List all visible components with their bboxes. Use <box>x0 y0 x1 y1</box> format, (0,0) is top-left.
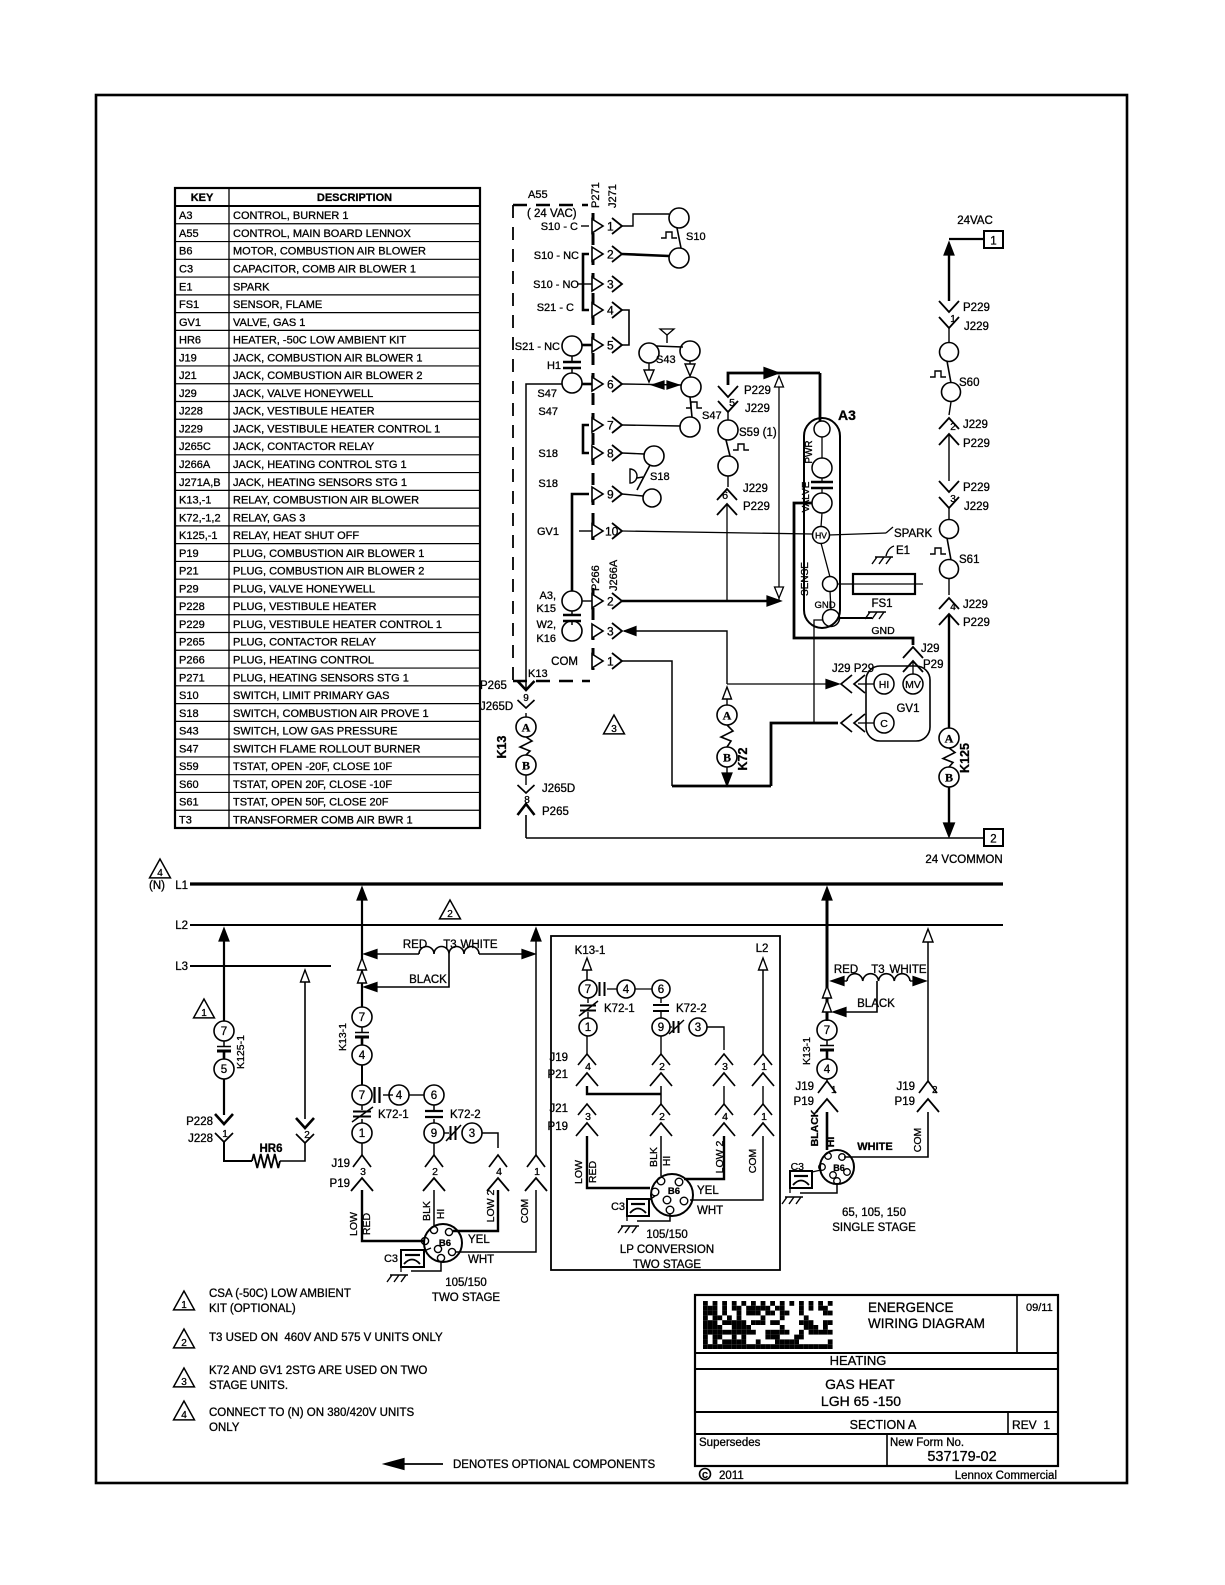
svg-text:K13: K13 <box>528 668 548 680</box>
svg-text:K72 AND GV1 2STG ARE USED ON T: K72 AND GV1 2STG ARE USED ON TWO <box>209 1365 427 1377</box>
wire jumper pin9 down to K15 <box>572 494 589 591</box>
switch S18 <box>644 446 664 466</box>
svg-text:( 24 VAC): ( 24 VAC) <box>527 208 577 220</box>
svg-text:GV1: GV1 <box>179 317 201 329</box>
svg-text:P229: P229 <box>963 302 990 314</box>
wire S47 to pin6 <box>582 383 592 386</box>
svg-text:P19: P19 <box>330 1178 350 1190</box>
svg-text:2: 2 <box>659 1111 665 1123</box>
wire T3 black tap (right) <box>846 981 877 1012</box>
svg-text:BLK: BLK <box>421 1201 433 1221</box>
svg-text:HI: HI <box>879 679 890 691</box>
relay contact K13-1 (two stage) <box>361 1006 363 1008</box>
wire T3 black tap <box>377 954 449 987</box>
svg-text:ONLY: ONLY <box>209 1422 240 1434</box>
svg-text:H1: H1 <box>547 360 561 372</box>
svg-text:SPARK: SPARK <box>233 281 270 293</box>
svg-text:7: 7 <box>359 1012 365 1024</box>
svg-text:JACK, CONTACTOR RELAY: JACK, CONTACTOR RELAY <box>233 441 375 453</box>
wire stub pin10 <box>579 530 592 532</box>
svg-text:S21 - NC: S21 - NC <box>515 341 560 353</box>
wire pin10 GV1 to A3 HV <box>622 531 812 534</box>
note triangle 4 (legend) <box>174 1401 195 1420</box>
svg-text:SPARK: SPARK <box>894 528 932 540</box>
wire S59 connector to pin2 line <box>726 504 728 601</box>
connector J271 pin 5 <box>592 338 603 352</box>
page border frame <box>96 95 1127 1483</box>
svg-text:J21: J21 <box>549 1103 568 1115</box>
relay contact K72-2 (LP) <box>653 1004 669 1006</box>
relay contact K72-2 network <box>425 1110 443 1112</box>
thermostat S61 <box>948 508 950 520</box>
wire LOW2 lead (LP) <box>684 1136 724 1179</box>
svg-text:CONTROL, MAIN BOARD LENNOX: CONTROL, MAIN BOARD LENNOX <box>233 228 412 240</box>
svg-text:S10 - C: S10 - C <box>541 221 578 233</box>
svg-text:L3: L3 <box>175 961 188 973</box>
wire LOW2/YEL lead <box>453 1190 498 1231</box>
wire K15 to pin2 <box>582 600 592 602</box>
svg-text:JACK, HEATING CONTROL STG 1: JACK, HEATING CONTROL STG 1 <box>233 459 407 471</box>
svg-text:4: 4 <box>950 602 956 613</box>
title block <box>695 1295 1058 1466</box>
svg-text:Lennox Commercial: Lennox Commercial <box>955 1470 1057 1482</box>
switch S21-NC terminal <box>562 336 582 356</box>
svg-text:4: 4 <box>181 1410 187 1421</box>
node A3,K15 terminal <box>562 591 582 611</box>
svg-text:K72,-1,2: K72,-1,2 <box>179 512 221 524</box>
svg-text:SWITCH, LIMIT PRIMARY GAS: SWITCH, LIMIT PRIMARY GAS <box>233 690 389 702</box>
wire pin1 COM down <box>622 661 672 786</box>
svg-text:HR6: HR6 <box>179 335 201 347</box>
svg-text:BLACK: BLACK <box>809 1109 821 1146</box>
svg-text:VALVE, GAS 1: VALVE, GAS 1 <box>233 317 305 329</box>
svg-text:E1: E1 <box>896 545 910 557</box>
barcode (datamatrix) <box>703 1301 833 1349</box>
svg-text:P229: P229 <box>963 617 990 629</box>
svg-text:TSTAT, OPEN 50F, CLOSE 20F: TSTAT, OPEN 50F, CLOSE 20F <box>233 797 389 809</box>
svg-text:E1: E1 <box>179 281 192 293</box>
svg-text:P266: P266 <box>590 565 602 591</box>
svg-text:J29: J29 <box>921 643 940 655</box>
wire GND to chassis <box>839 617 872 619</box>
svg-text:2: 2 <box>659 1061 665 1073</box>
terminal box 1 <box>984 231 1003 248</box>
svg-text:CAPACITOR, COMB AIR BLOWER 1: CAPACITOR, COMB AIR BLOWER 1 <box>233 264 416 276</box>
svg-text:LOW: LOW <box>348 1212 360 1236</box>
svg-text:4: 4 <box>722 1111 728 1123</box>
svg-text:P229: P229 <box>179 619 205 631</box>
svg-text:C3: C3 <box>611 1201 625 1213</box>
svg-text:1: 1 <box>761 1111 767 1123</box>
chevron row 2 (LP) <box>578 1104 596 1115</box>
svg-text:New Form No.: New Form No. <box>890 1437 964 1449</box>
connector P229 pin 3 <box>939 481 959 492</box>
svg-text:BLK: BLK <box>648 1147 660 1167</box>
svg-text:J229: J229 <box>964 501 989 513</box>
svg-text:WHITE: WHITE <box>857 1141 892 1153</box>
thermostat S59 <box>727 412 729 420</box>
svg-text:C3: C3 <box>384 1253 398 1265</box>
svg-text:1: 1 <box>181 1300 187 1311</box>
svg-text:J229: J229 <box>964 321 989 333</box>
svg-text:7: 7 <box>221 1026 227 1038</box>
svg-text:RELAY, HEAT SHUT OFF: RELAY, HEAT SHUT OFF <box>233 530 359 542</box>
svg-text:J229: J229 <box>963 419 988 431</box>
svg-text:1: 1 <box>359 1128 365 1140</box>
ground (C3 single) <box>785 1196 803 1198</box>
wire jumper pin2-pin4 <box>583 254 589 310</box>
svg-text:JACK, HEATING SENSORS STG 1: JACK, HEATING SENSORS STG 1 <box>233 477 407 489</box>
wire L1 down (two stage) <box>357 887 367 900</box>
optional arrows at pin6 wire <box>652 381 664 389</box>
wire stub pin1 <box>581 225 589 227</box>
svg-text:S47: S47 <box>538 406 558 418</box>
connector J271 pin 3 <box>592 277 603 291</box>
svg-text:YEL: YEL <box>468 1234 490 1246</box>
svg-text:1: 1 <box>990 236 996 248</box>
switch S47 <box>681 377 701 397</box>
svg-text:S59 (1): S59 (1) <box>739 427 777 439</box>
svg-text:JACK, COMBUSTION AIR BLOWER 1: JACK, COMBUSTION AIR BLOWER 1 <box>233 352 422 364</box>
svg-text:S60: S60 <box>179 779 199 791</box>
svg-text:S18: S18 <box>179 708 199 720</box>
connector J29/P29 (HI) <box>841 675 852 693</box>
svg-text:S61: S61 <box>179 797 199 809</box>
motor B6 (two stage) <box>424 1224 462 1262</box>
svg-text:2: 2 <box>432 1166 438 1178</box>
ground (A3 GND) <box>868 611 886 613</box>
connector J266A pin 3 <box>592 624 603 638</box>
svg-text:1: 1 <box>831 1085 837 1096</box>
svg-text:HI: HI <box>661 1156 673 1167</box>
svg-text:J19: J19 <box>795 1081 814 1093</box>
svg-text:PWR: PWR <box>804 440 815 463</box>
wire L1 <box>190 882 1003 885</box>
wire pin3 (W2,K16) to HI junction <box>624 627 636 636</box>
copyright <box>700 1469 711 1480</box>
connector chevrons row (two stage) <box>353 1155 371 1167</box>
svg-text:KIT (OPTIONAL): KIT (OPTIONAL) <box>209 1303 296 1315</box>
svg-text:K72-1: K72-1 <box>378 1109 409 1121</box>
svg-text:PLUG, HEATING CONTROL: PLUG, HEATING CONTROL <box>233 654 374 666</box>
svg-text:S18: S18 <box>538 478 558 490</box>
svg-text:J265C: J265C <box>179 441 211 453</box>
svg-text:P266: P266 <box>179 654 205 666</box>
svg-text:7: 7 <box>359 1090 365 1102</box>
svg-text:65, 105, 150: 65, 105, 150 <box>842 1207 906 1219</box>
svg-text:COM: COM <box>747 1149 759 1174</box>
motor B6 (LP) <box>651 1174 693 1216</box>
svg-text:S47: S47 <box>179 743 199 755</box>
wire BLK lead <box>433 1190 435 1226</box>
svg-text:4: 4 <box>623 984 630 996</box>
wire HV to spark gap <box>829 533 886 535</box>
svg-text:537179-02: 537179-02 <box>927 1449 996 1465</box>
terminal box 2 <box>984 829 1003 846</box>
svg-text:P228: P228 <box>179 601 205 613</box>
svg-text:24VAC: 24VAC <box>957 215 993 227</box>
svg-text:4: 4 <box>607 304 614 318</box>
wire jumper pin7-pin8 <box>583 425 589 453</box>
svg-text:PLUG, HEATING SENSORS STG 1: PLUG, HEATING SENSORS STG 1 <box>233 672 409 684</box>
svg-text:J229: J229 <box>745 403 770 415</box>
op-amp/control A3 body <box>804 418 840 628</box>
svg-text:B: B <box>723 751 731 765</box>
svg-text:SECTION A: SECTION A <box>850 1418 917 1432</box>
svg-text:A3: A3 <box>179 210 192 222</box>
connector J265D/P265 (8) <box>525 775 527 785</box>
svg-text:S61: S61 <box>959 554 979 566</box>
svg-text:9: 9 <box>431 1128 437 1140</box>
svg-text:CSA (-50C) LOW AMBIENT: CSA (-50C) LOW AMBIENT <box>209 1288 351 1300</box>
svg-text:K13-1: K13-1 <box>575 945 606 957</box>
svg-text:1: 1 <box>607 220 614 234</box>
svg-text:9: 9 <box>523 693 529 704</box>
svg-text:1: 1 <box>201 1008 207 1019</box>
svg-text:A55: A55 <box>179 228 199 240</box>
connector J29/P29 (MV) <box>903 647 923 658</box>
note triangle 2 (legend) <box>174 1329 195 1348</box>
svg-text:B6: B6 <box>179 246 192 258</box>
svg-text:PLUG, COMBUSTION AIR BLOWER 1: PLUG, COMBUSTION AIR BLOWER 1 <box>233 548 424 560</box>
svg-text:MOTOR, COMBUSTION AIR BLOWER: MOTOR, COMBUSTION AIR BLOWER <box>233 246 426 258</box>
svg-text:T3 USED ON 460V AND 575 V UNI: T3 USED ON 460V AND 575 V UNITS ONLY <box>209 1332 443 1344</box>
wire riser pin2 to PWR line <box>778 376 780 600</box>
svg-text:1: 1 <box>761 1061 767 1073</box>
svg-text:W2,: W2, <box>536 619 556 631</box>
svg-text:JACK, VESTIBULE HEATER CONTROL: JACK, VESTIBULE HEATER CONTROL 1 <box>233 423 440 435</box>
note triangle 3 (K72) <box>604 715 625 734</box>
svg-text:HR6: HR6 <box>259 1143 282 1155</box>
svg-text:2: 2 <box>932 1085 938 1096</box>
svg-text:K13,-1: K13,-1 <box>179 495 211 507</box>
svg-text:P19: P19 <box>548 1121 568 1133</box>
relay K72 <box>723 687 732 699</box>
svg-text:YEL: YEL <box>697 1185 719 1197</box>
note triangle 2 <box>440 900 461 919</box>
wire S60 to S61 <box>948 434 950 481</box>
A3 PWR terminal <box>814 421 830 437</box>
valve GV1 body <box>866 666 930 741</box>
svg-text:7: 7 <box>607 419 614 433</box>
connector J271 pin 7 <box>592 418 603 432</box>
connector J271 pin 9 <box>592 487 603 501</box>
svg-text:2: 2 <box>607 248 614 262</box>
svg-text:COM: COM <box>912 1128 924 1153</box>
wire L3 <box>190 965 331 967</box>
svg-text:P21: P21 <box>179 566 199 578</box>
svg-text:6: 6 <box>431 1090 437 1102</box>
svg-text:JACK, VALVE HONEYWELL: JACK, VALVE HONEYWELL <box>233 388 373 400</box>
svg-text:HI: HI <box>825 1137 837 1148</box>
svg-text:RED: RED <box>403 939 427 951</box>
svg-text:GND: GND <box>871 625 895 637</box>
A3 SENSE terminal <box>821 543 830 577</box>
svg-text:L2: L2 <box>756 943 769 955</box>
svg-text:3: 3 <box>695 1022 701 1034</box>
svg-text:J271: J271 <box>607 184 619 208</box>
svg-text:J266A: J266A <box>179 459 211 471</box>
svg-text:P271: P271 <box>179 672 205 684</box>
chevron row 1 (LP) <box>578 1054 596 1065</box>
svg-text:A3,: A3, <box>539 590 556 602</box>
svg-text:WIRING DIAGRAM: WIRING DIAGRAM <box>868 1316 985 1331</box>
svg-text:COM: COM <box>551 656 578 668</box>
wire pin1 to S10 common <box>622 214 669 226</box>
svg-text:WHITE: WHITE <box>889 964 926 976</box>
svg-text:8: 8 <box>607 447 614 461</box>
svg-text:3: 3 <box>611 724 617 735</box>
svg-text:MV: MV <box>905 679 921 691</box>
wire S21NC to pin5 <box>582 344 592 347</box>
svg-text:5: 5 <box>607 339 614 353</box>
svg-text:6: 6 <box>607 378 614 392</box>
svg-text:K16: K16 <box>536 633 556 645</box>
svg-text:T3: T3 <box>179 814 192 826</box>
svg-text:L1: L1 <box>175 880 188 892</box>
svg-text:PLUG, VALVE HONEYWELL: PLUG, VALVE HONEYWELL <box>233 583 375 595</box>
svg-text:PLUG, COMBUSTION AIR BLOWER 2: PLUG, COMBUSTION AIR BLOWER 2 <box>233 566 424 578</box>
optional arrows on drop (right) <box>823 986 832 998</box>
svg-text:K72-2: K72-2 <box>676 1003 707 1015</box>
svg-text:Supersedes: Supersedes <box>699 1437 761 1449</box>
svg-text:K125-1: K125-1 <box>235 1035 247 1069</box>
svg-text:9: 9 <box>658 1022 664 1034</box>
svg-text:P265: P265 <box>542 806 569 818</box>
svg-text:ENERGENCE: ENERGENCE <box>868 1300 954 1315</box>
svg-text:6: 6 <box>722 490 728 502</box>
wire S47 terminal to P265-9 (K13 feed) <box>526 384 562 681</box>
wire SENSE to FS1 <box>837 583 853 585</box>
svg-text:GV1: GV1 <box>537 526 559 538</box>
svg-text:FS1: FS1 <box>179 299 199 311</box>
svg-text:9: 9 <box>607 488 614 502</box>
svg-text:P229: P229 <box>963 438 990 450</box>
svg-text:4: 4 <box>496 1166 502 1178</box>
note triangle 1 <box>194 999 215 1018</box>
A3 HV terminal <box>821 513 822 527</box>
svg-text:KEY: KEY <box>191 192 214 204</box>
wire 24V common rail <box>526 837 984 839</box>
wire into A3 PWR <box>819 373 822 421</box>
svg-text:S18: S18 <box>538 448 558 460</box>
connector J271 pin 2 <box>592 247 603 261</box>
svg-text:P21: P21 <box>548 1069 568 1081</box>
svg-text:3: 3 <box>181 1377 187 1388</box>
svg-text:4: 4 <box>157 868 163 879</box>
svg-text:S10 - NC: S10 - NC <box>534 250 579 262</box>
connector P271/J271 strip <box>592 213 595 540</box>
wire RED lead (LP) <box>587 1136 650 1188</box>
svg-text:PLUG, CONTACTOR RELAY: PLUG, CONTACTOR RELAY <box>233 637 377 649</box>
svg-text:SENSE: SENSE <box>800 562 811 596</box>
svg-text:7: 7 <box>824 1025 830 1037</box>
svg-text:S10: S10 <box>686 231 706 243</box>
wire GND terminal down to C line <box>814 620 823 723</box>
connector J229 pin 4 <box>939 598 959 609</box>
svg-text:LOW 2: LOW 2 <box>485 1190 497 1223</box>
svg-text:A: A <box>945 732 954 746</box>
svg-text:SWITCH, COMBUSTION AIR PROVE 1: SWITCH, COMBUSTION AIR PROVE 1 <box>233 708 429 720</box>
svg-text:3: 3 <box>722 1061 728 1073</box>
svg-text:P265: P265 <box>179 637 205 649</box>
svg-text:09/11: 09/11 <box>1026 1302 1053 1314</box>
svg-text:P19: P19 <box>895 1096 915 1108</box>
svg-text:JACK, VESTIBULE HEATER: JACK, VESTIBULE HEATER <box>233 406 375 418</box>
svg-text:P229: P229 <box>744 385 771 397</box>
svg-text:HI: HI <box>435 1209 447 1220</box>
svg-text:4: 4 <box>824 1064 831 1076</box>
svg-text:A: A <box>522 721 531 735</box>
svg-text:C: C <box>880 718 888 730</box>
svg-text:S10: S10 <box>179 690 199 702</box>
connector J271 pin 10 <box>592 524 603 538</box>
switch S43 <box>639 343 659 363</box>
svg-text:3: 3 <box>469 1128 475 1140</box>
svg-text:K125: K125 <box>958 743 972 773</box>
wire S43 left leg <box>648 363 650 372</box>
GV1 MV terminal <box>903 674 923 694</box>
svg-text:GAS HEAT: GAS HEAT <box>825 1376 895 1392</box>
svg-text:L2: L2 <box>175 920 188 932</box>
wire RED lead <box>362 1190 424 1241</box>
GV1 C terminal <box>874 713 894 733</box>
ground (E1) <box>875 556 893 558</box>
LP conversion box <box>551 936 780 1270</box>
note triangle 1 (legend) <box>174 1291 195 1310</box>
svg-text:2: 2 <box>950 422 956 433</box>
svg-text:HEATING: HEATING <box>830 1353 887 1368</box>
svg-text:COM: COM <box>519 1199 531 1224</box>
svg-text:3: 3 <box>360 1166 366 1178</box>
svg-text:J19: J19 <box>179 352 197 364</box>
svg-text:RELAY, COMBUSTION AIR BLOWER: RELAY, COMBUSTION AIR BLOWER <box>233 495 419 507</box>
svg-text:P228: P228 <box>186 1116 213 1128</box>
motor B6 (single stage) <box>820 1150 854 1184</box>
svg-text:STAGE UNITS.: STAGE UNITS. <box>209 1380 288 1392</box>
wire COM to L2 (single) <box>927 940 929 1081</box>
svg-text:S18: S18 <box>650 471 670 483</box>
svg-text:J229: J229 <box>743 483 768 495</box>
svg-text:1: 1 <box>607 655 614 669</box>
connector J229 pin 2 <box>939 418 959 429</box>
svg-text:K13: K13 <box>495 735 509 758</box>
svg-text:7: 7 <box>585 984 591 996</box>
svg-text:LOW: LOW <box>573 1160 585 1184</box>
wire pin2 (A3,K15) to PWR riser <box>622 600 777 603</box>
svg-text:CONTROL, BURNER 1: CONTROL, BURNER 1 <box>233 210 349 222</box>
svg-text:B6: B6 <box>833 1163 845 1173</box>
svg-text:TRANSFORMER COMB AIR BWR 1: TRANSFORMER COMB AIR BWR 1 <box>233 814 413 826</box>
svg-text:J265D: J265D <box>542 783 575 795</box>
svg-text:4: 4 <box>396 1090 403 1102</box>
svg-text:S43: S43 <box>656 354 676 366</box>
svg-text:S43: S43 <box>179 726 199 738</box>
connector P266/J266A strip <box>592 588 595 670</box>
heater H1 <box>563 361 581 363</box>
node W2,K16 terminal <box>562 621 582 641</box>
relay contact K72-1 network <box>352 1085 372 1105</box>
thermostat S60 <box>948 328 950 343</box>
svg-text:DENOTES OPTIONAL COMPONENTS: DENOTES OPTIONAL COMPONENTS <box>453 1459 655 1471</box>
svg-text:P229: P229 <box>963 482 990 494</box>
svg-text:SWITCH, LOW GAS PRESSURE: SWITCH, LOW GAS PRESSURE <box>233 726 397 738</box>
wire COM/WHT lead <box>455 1190 536 1252</box>
svg-text:GND: GND <box>814 600 835 611</box>
svg-text:P271: P271 <box>590 182 602 208</box>
svg-text:K125,-1: K125,-1 <box>179 530 218 542</box>
connector J271 pin 6 <box>592 377 603 391</box>
